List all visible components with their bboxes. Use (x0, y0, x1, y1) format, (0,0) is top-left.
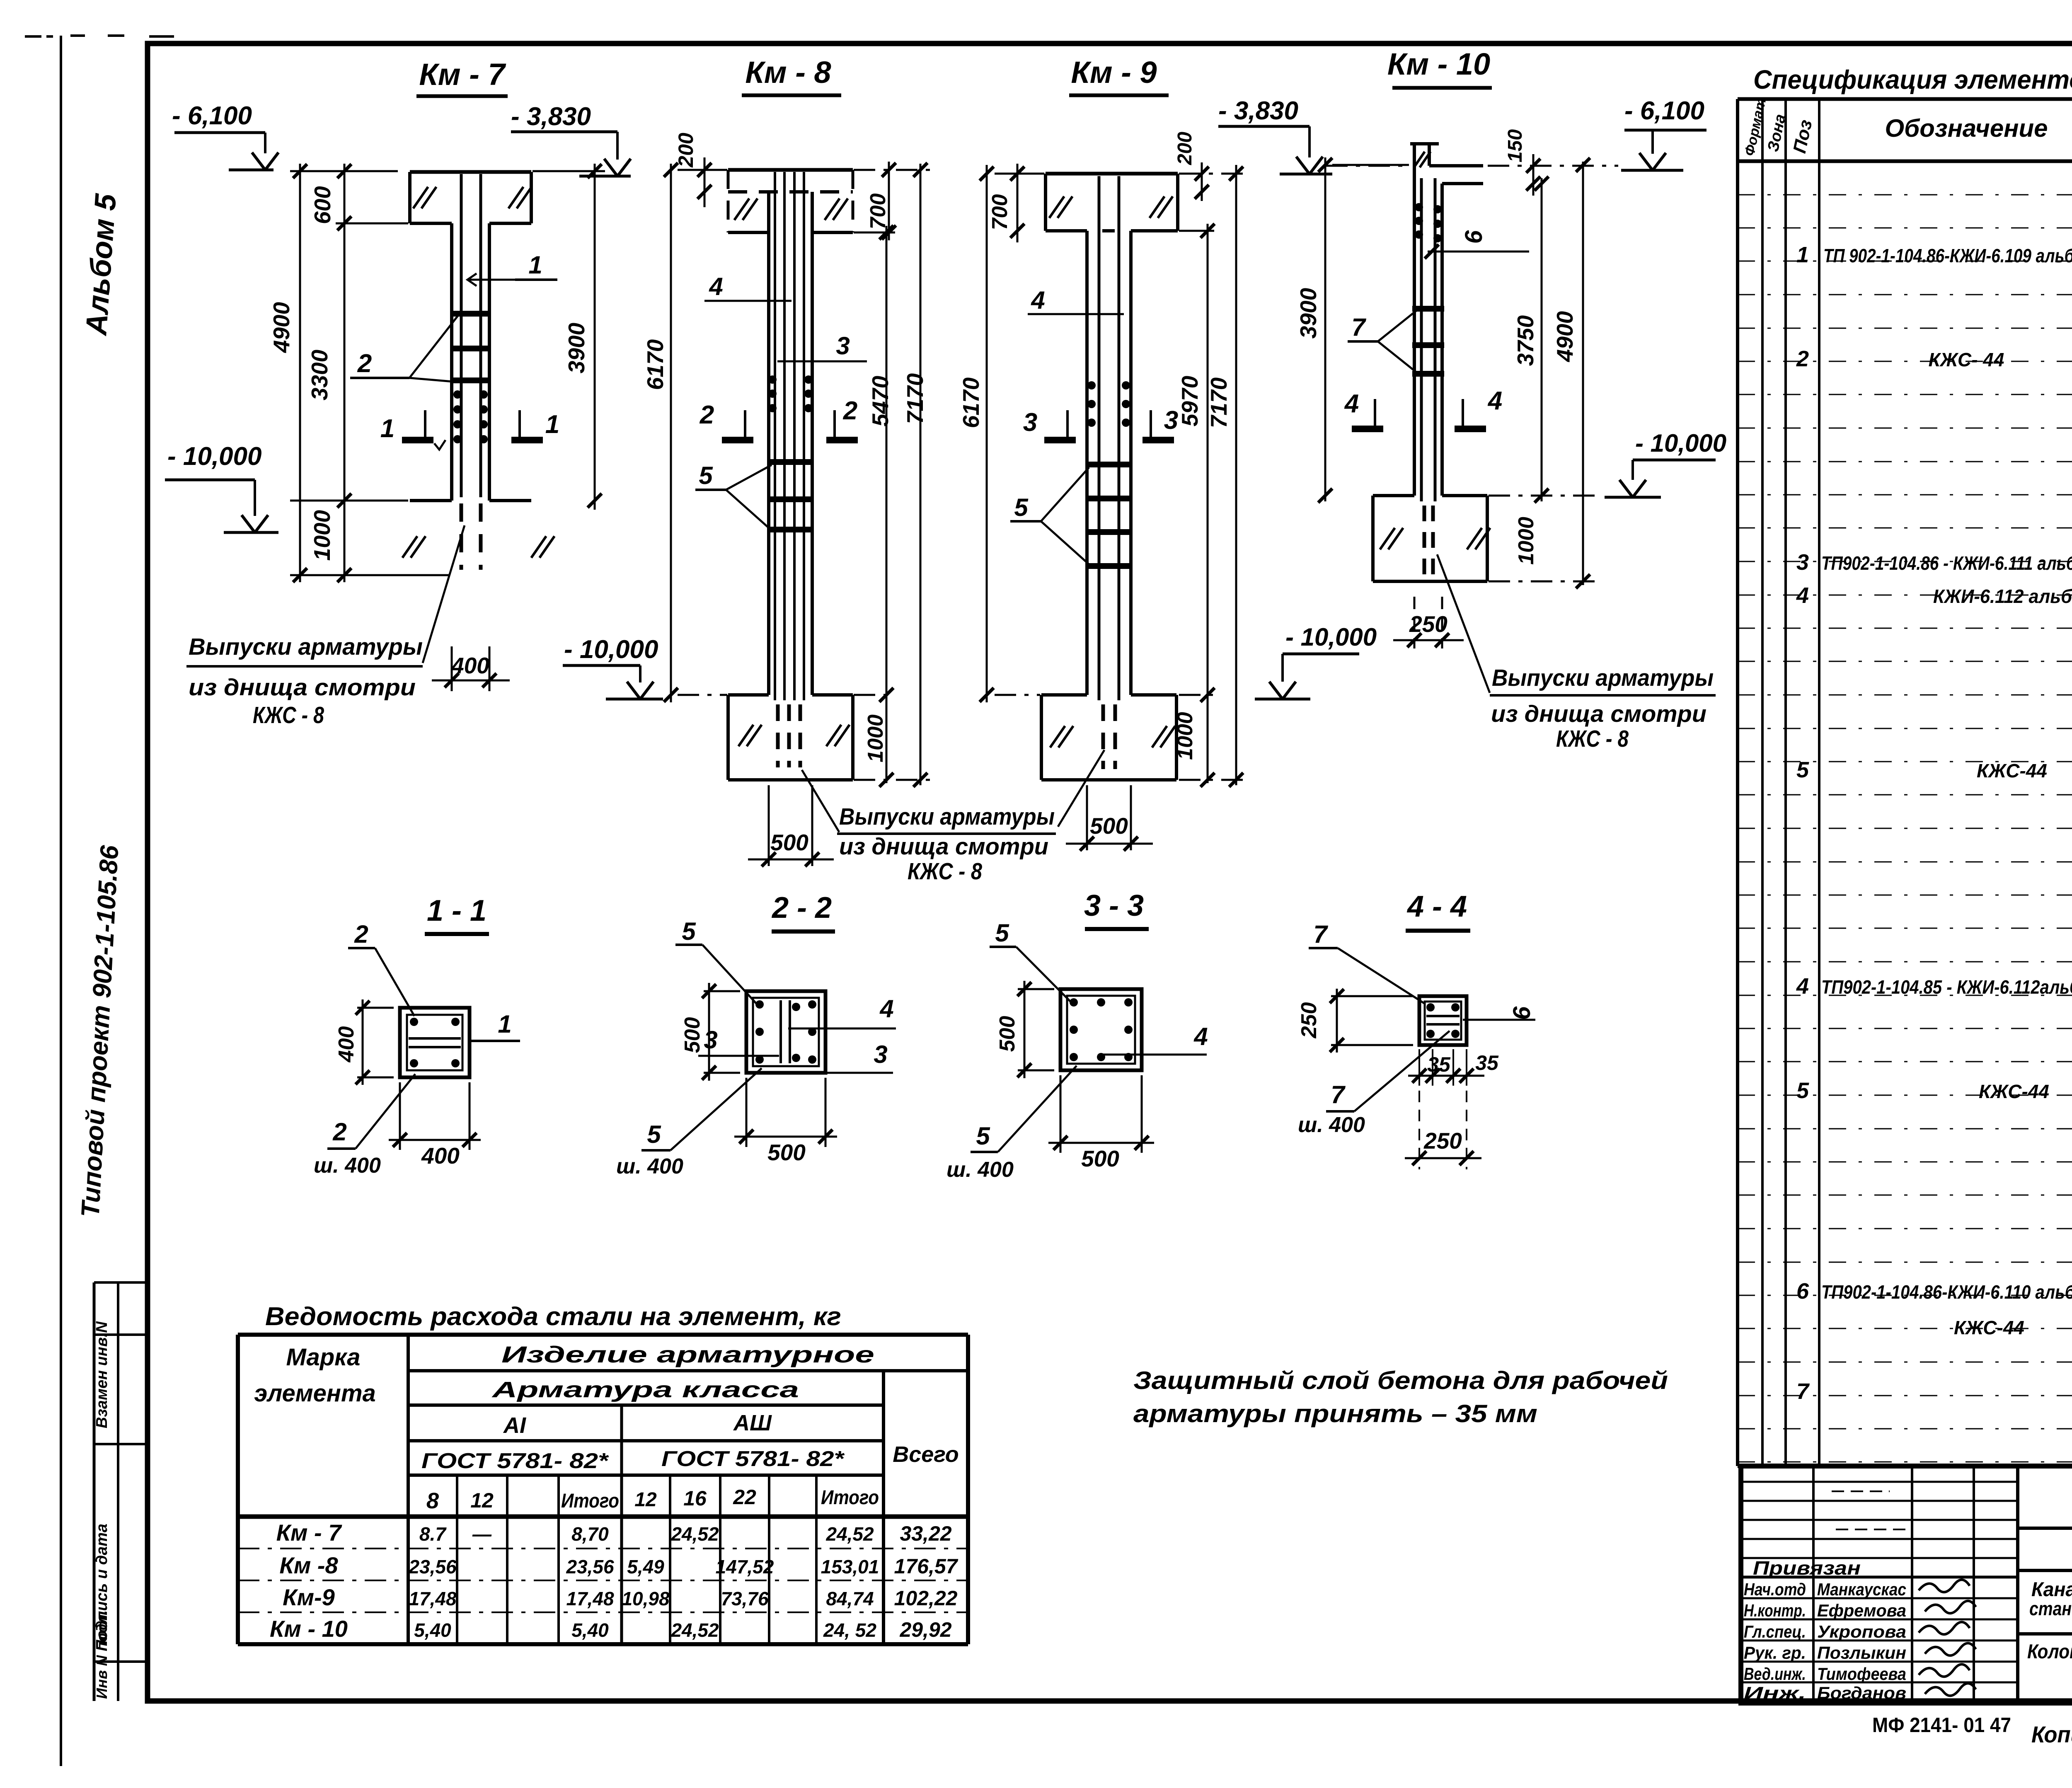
svg-text:7: 7 (1796, 1379, 1810, 1404)
svg-text:29,92: 29,92 (899, 1618, 951, 1641)
svg-text:4: 4 (1796, 974, 1809, 999)
svg-text:- 10,000: - 10,000 (1285, 623, 1377, 651)
svg-text:5470: 5470 (867, 375, 893, 426)
svg-text:5,49: 5,49 (627, 1556, 664, 1578)
svg-text:Всего: Всего (893, 1442, 959, 1467)
svg-text:Выпуски арматуры: Выпуски арматуры (189, 634, 423, 660)
svg-text:Колонны Км-7; Км-8;Км-9;Км-10: Колонны Км-7; Км-8;Км-9;Км-10 (2027, 1641, 2072, 1663)
svg-text:4 - 4: 4 - 4 (1406, 890, 1467, 923)
svg-text:элемента: элемента (254, 1380, 376, 1407)
svg-text:ТП902-1-104.86 - КЖИ-6.111 аль: ТП902-1-104.86 - КЖИ-6.111 альбом 6 (1821, 552, 2072, 574)
svg-text:1: 1 (528, 251, 542, 279)
svg-text:ГОСТ 5781- 82*: ГОСТ 5781- 82* (661, 1447, 845, 1471)
svg-text:5: 5 (1796, 1078, 1809, 1103)
svg-text:5,40: 5,40 (571, 1619, 609, 1641)
svg-text:АШ: АШ (733, 1411, 772, 1435)
svg-text:ш. 400: ш. 400 (314, 1154, 381, 1178)
svg-text:17,48: 17,48 (409, 1588, 457, 1609)
svg-text:Км - 10: Км - 10 (270, 1616, 348, 1642)
svg-text:500: 500 (770, 830, 808, 855)
svg-text:ТП902-1-104.85 - КЖИ-6.112альб: ТП902-1-104.85 - КЖИ-6.112альбом6 (1821, 976, 2072, 998)
svg-text:Обозначение: Обозначение (1885, 114, 2048, 142)
svg-text:2: 2 (332, 1118, 346, 1146)
svg-text:2: 2 (357, 349, 372, 378)
svg-text:6: 6 (1796, 1279, 1809, 1304)
svg-text:2: 2 (843, 397, 857, 425)
svg-text:1: 1 (545, 410, 559, 439)
svg-text:500: 500 (767, 1140, 806, 1165)
svg-text:600: 600 (310, 186, 335, 224)
svg-text:- 10,000: - 10,000 (1635, 429, 1726, 457)
svg-text:Инж.: Инж. (1744, 1683, 1806, 1703)
svg-text:Км - 9: Км - 9 (1071, 55, 1157, 90)
svg-text:3: 3 (704, 1026, 717, 1054)
svg-text:КЖС - 8: КЖС - 8 (1556, 726, 1629, 752)
svg-text:1000: 1000 (864, 714, 888, 762)
svg-text:- 3,830: - 3,830 (511, 102, 591, 131)
svg-text:КЖС- 44: КЖС- 44 (1929, 349, 2004, 370)
svg-text:КЖС - 8: КЖС - 8 (908, 858, 982, 885)
svg-text:500: 500 (680, 1017, 704, 1053)
svg-text:Км - 8: Км - 8 (745, 55, 831, 90)
svg-text:Тимофеева: Тимофеева (1817, 1664, 1906, 1684)
svg-text:6170: 6170 (642, 339, 668, 390)
svg-text:23,56: 23,56 (408, 1556, 457, 1578)
svg-text:арматуры принять – 35 мм: арматуры принять – 35 мм (1133, 1400, 1537, 1427)
svg-text:5: 5 (1014, 494, 1029, 521)
svg-text:- 10,000: - 10,000 (564, 635, 658, 664)
svg-text:КЖС - 8: КЖС - 8 (253, 702, 324, 728)
svg-text:250: 250 (1409, 611, 1447, 637)
svg-text:Богданов: Богданов (1817, 1683, 1906, 1703)
svg-text:400: 400 (451, 653, 489, 678)
svg-text:Арматура класса: Арматура класса (491, 1377, 799, 1402)
svg-text:Км -8: Км -8 (279, 1552, 338, 1578)
svg-text:10,98: 10,98 (622, 1588, 670, 1609)
svg-text:Привязан: Привязан (1753, 1557, 1861, 1579)
svg-text:Км - 7: Км - 7 (419, 57, 506, 92)
svg-text:5970: 5970 (1177, 375, 1203, 426)
svg-text:3: 3 (1023, 408, 1037, 437)
svg-text:6: 6 (1460, 230, 1487, 244)
svg-text:Км-9: Км-9 (283, 1584, 335, 1610)
svg-text:Ведомость расхода стали: Ведомость расхода стали на элемент, кг (265, 1302, 841, 1331)
svg-text:из днища смотри: из днища смотри (189, 674, 416, 701)
svg-text:4: 4 (1344, 390, 1359, 418)
svg-text:ТП902-1-104.86-КЖИ-6.110 альбо: ТП902-1-104.86-КЖИ-6.110 альбом 6 (1821, 1281, 2072, 1303)
svg-text:8,70: 8,70 (571, 1523, 609, 1545)
svg-text:73,76: 73,76 (721, 1588, 769, 1609)
svg-text:35: 35 (1475, 1051, 1499, 1074)
svg-text:33,22: 33,22 (900, 1522, 951, 1545)
svg-text:3900: 3900 (564, 322, 589, 373)
svg-text:Укропова: Укропова (1817, 1622, 1906, 1641)
svg-text:24, 52: 24, 52 (823, 1619, 876, 1641)
svg-text:- 3,830: - 3,830 (1218, 97, 1298, 125)
svg-text:250: 250 (1297, 1002, 1321, 1039)
svg-text:Вед.инж.: Вед.инж. (1744, 1664, 1806, 1684)
svg-text:ш. 400: ш. 400 (616, 1154, 683, 1178)
svg-text:3300: 3300 (307, 349, 332, 400)
svg-text:из днища смотри: из днища смотри (1491, 701, 1706, 727)
svg-text:АI: АI (503, 1413, 526, 1438)
svg-text:3750: 3750 (1513, 315, 1538, 366)
svg-text:ш. 400: ш. 400 (946, 1158, 1014, 1182)
svg-text:3: 3 (1796, 550, 1809, 575)
svg-text:8.7: 8.7 (419, 1523, 447, 1545)
svg-text:- 6,100: - 6,100 (172, 102, 252, 130)
svg-text:700: 700 (866, 194, 890, 230)
svg-text:5: 5 (647, 1120, 661, 1148)
svg-text:12: 12 (470, 1489, 494, 1512)
svg-text:12: 12 (634, 1489, 657, 1511)
svg-text:5,40: 5,40 (414, 1619, 451, 1641)
svg-text:400: 400 (334, 1026, 358, 1063)
svg-text:23,56: 23,56 (566, 1556, 614, 1578)
svg-text:200: 200 (1174, 132, 1196, 165)
svg-text:3: 3 (1164, 406, 1178, 435)
svg-text:Инв N подл.: Инв N подл. (93, 1610, 110, 1699)
svg-text:35: 35 (1427, 1053, 1451, 1076)
svg-text:Защитный слой бетона для р: Защитный слой бетона для рабочей (1133, 1367, 1668, 1394)
svg-text:Итого: Итого (561, 1490, 619, 1512)
svg-text:6170: 6170 (958, 377, 984, 428)
svg-text:Нач.отд: Нач.отд (1744, 1580, 1806, 1599)
svg-text:Км - 7: Км - 7 (276, 1519, 343, 1546)
svg-text:Км - 10: Км - 10 (1387, 47, 1490, 81)
svg-text:150: 150 (1504, 129, 1526, 162)
svg-text:7: 7 (1351, 313, 1366, 341)
svg-text:500: 500 (1081, 1146, 1119, 1171)
svg-text:250: 250 (1423, 1128, 1462, 1154)
svg-text:17,48: 17,48 (566, 1588, 614, 1609)
svg-text:4: 4 (879, 995, 893, 1023)
svg-text:102,22: 102,22 (894, 1587, 958, 1610)
svg-text:7: 7 (1313, 920, 1328, 948)
svg-text:5: 5 (976, 1122, 990, 1150)
svg-text:4: 4 (1193, 1023, 1208, 1050)
svg-text:- 10,000: - 10,000 (167, 442, 262, 471)
svg-text:4900: 4900 (1552, 311, 1578, 362)
svg-text:3: 3 (836, 332, 850, 360)
svg-text:Н.контр.: Н.контр. (1744, 1601, 1806, 1620)
svg-text:2: 2 (354, 920, 368, 948)
svg-text:3900: 3900 (1295, 288, 1321, 339)
svg-text:КЖС-44: КЖС-44 (1954, 1317, 2024, 1338)
svg-text:84,74: 84,74 (826, 1588, 874, 1609)
svg-text:Взамен инв.N: Взамен инв.N (93, 1321, 111, 1428)
svg-text:500: 500 (1090, 813, 1128, 839)
svg-text:3: 3 (874, 1040, 887, 1068)
svg-text:Спецификация элементов к мо: Спецификация элементов к монолитным коло… (1753, 65, 2072, 94)
svg-text:Рук. гр.: Рук. гр. (1744, 1643, 1806, 1662)
svg-text:станция при глубине заложен: станция при глубине заложения (2029, 1598, 2072, 1619)
svg-text:Гл.спец.: Гл.спец. (1744, 1622, 1806, 1641)
svg-text:4: 4 (1031, 286, 1045, 314)
svg-text:КЖС-44: КЖС-44 (1977, 760, 2047, 781)
svg-text:ТП 902-1-104.86-КЖИ-6.109 альб: ТП 902-1-104.86-КЖИ-6.109 альбом 6 (1823, 245, 2072, 266)
svg-text:4900: 4900 (269, 302, 294, 353)
svg-text:Позлыкин: Позлыкин (1817, 1643, 1906, 1662)
svg-text:4: 4 (709, 273, 723, 300)
svg-text:2: 2 (1796, 346, 1809, 371)
svg-text:1000: 1000 (1514, 517, 1538, 565)
svg-text:4: 4 (1796, 583, 1809, 608)
svg-text:2 - 2: 2 - 2 (771, 891, 832, 924)
svg-text:1: 1 (498, 1010, 511, 1038)
svg-text:2: 2 (700, 401, 714, 429)
svg-text:КЖИ-6.112 альбом 6: КЖИ-6.112 альбом 6 (1933, 586, 2072, 607)
svg-text:22: 22 (733, 1486, 756, 1509)
svg-text:700: 700 (988, 194, 1012, 230)
svg-text:24,52: 24,52 (670, 1619, 719, 1641)
svg-text:ГОСТ 5781- 82*: ГОСТ 5781- 82* (421, 1449, 609, 1473)
svg-text:6: 6 (1508, 1006, 1535, 1020)
svg-text:400: 400 (421, 1143, 460, 1169)
svg-text:7: 7 (1331, 1081, 1346, 1108)
svg-text:8: 8 (426, 1488, 439, 1513)
svg-text:КЖС-44: КЖС-44 (1979, 1081, 2049, 1102)
svg-text:24,52: 24,52 (825, 1523, 874, 1545)
svg-text:Ефремова: Ефремова (1817, 1601, 1906, 1620)
svg-text:из днища смотри: из днища смотри (839, 833, 1048, 860)
svg-text:МФ 2141- 01 47: МФ 2141- 01 47 (1872, 1713, 2011, 1737)
svg-text:16: 16 (683, 1487, 707, 1510)
svg-text:Изделие арматурное: Изделие арматурное (501, 1341, 874, 1367)
svg-text:Манкаускас: Манкаускас (1817, 1580, 1906, 1599)
svg-text:176,57: 176,57 (894, 1555, 959, 1578)
svg-text:1: 1 (380, 414, 395, 443)
svg-text:5: 5 (682, 917, 696, 945)
svg-text:7170: 7170 (902, 373, 928, 424)
svg-text:1 - 1: 1 - 1 (427, 894, 487, 927)
svg-text:—: — (472, 1523, 492, 1545)
svg-text:Выпуски арматуры: Выпуски арматуры (839, 803, 1055, 830)
svg-text:3 - 3: 3 - 3 (1084, 889, 1144, 922)
svg-text:7170: 7170 (1206, 377, 1232, 428)
svg-text:Копировал Иванова: Копировал Иванова (2031, 1721, 2072, 1747)
svg-text:147,52: 147,52 (716, 1556, 774, 1578)
svg-text:500: 500 (995, 1016, 1019, 1052)
svg-text:1000: 1000 (309, 510, 335, 561)
svg-text:Выпуски арматуры: Выпуски арматуры (1492, 665, 1714, 691)
svg-text:1: 1 (1796, 242, 1809, 267)
svg-text:5: 5 (995, 919, 1009, 947)
svg-text:Марка: Марка (286, 1344, 360, 1371)
svg-text:200: 200 (674, 133, 697, 168)
svg-text:ш. 400: ш. 400 (1298, 1113, 1365, 1137)
svg-text:4: 4 (1487, 387, 1502, 415)
svg-text:Итого: Итого (821, 1487, 879, 1509)
svg-text:- 6,100: - 6,100 (1624, 97, 1704, 125)
svg-text:5: 5 (699, 462, 713, 489)
svg-text:153,01: 153,01 (821, 1556, 879, 1578)
svg-text:1000: 1000 (1173, 712, 1197, 760)
svg-text:24,52: 24,52 (670, 1523, 719, 1545)
svg-text:5: 5 (1796, 757, 1809, 782)
